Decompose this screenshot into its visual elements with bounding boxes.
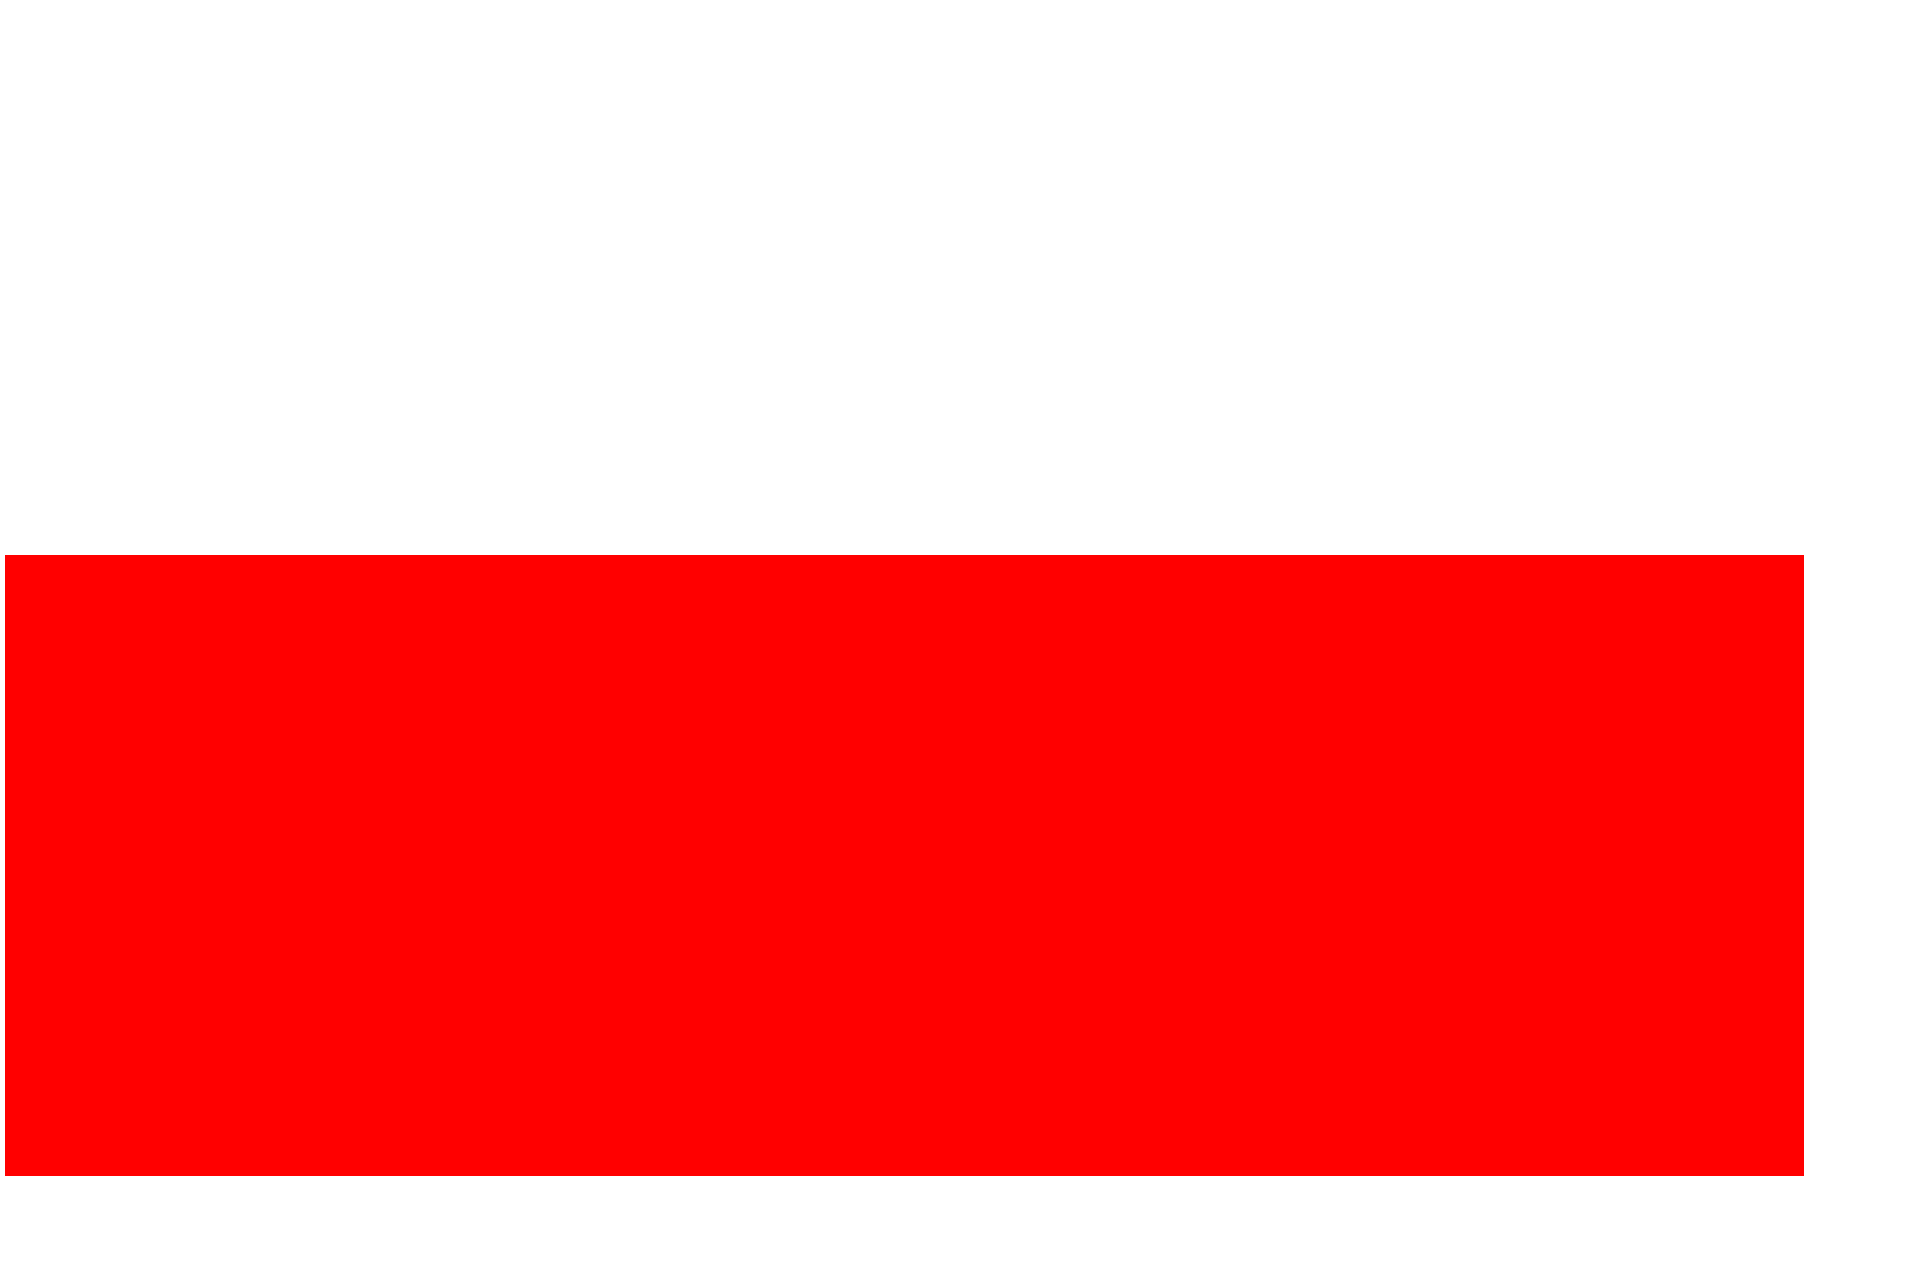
- red rectangle: [5, 555, 1804, 1176]
